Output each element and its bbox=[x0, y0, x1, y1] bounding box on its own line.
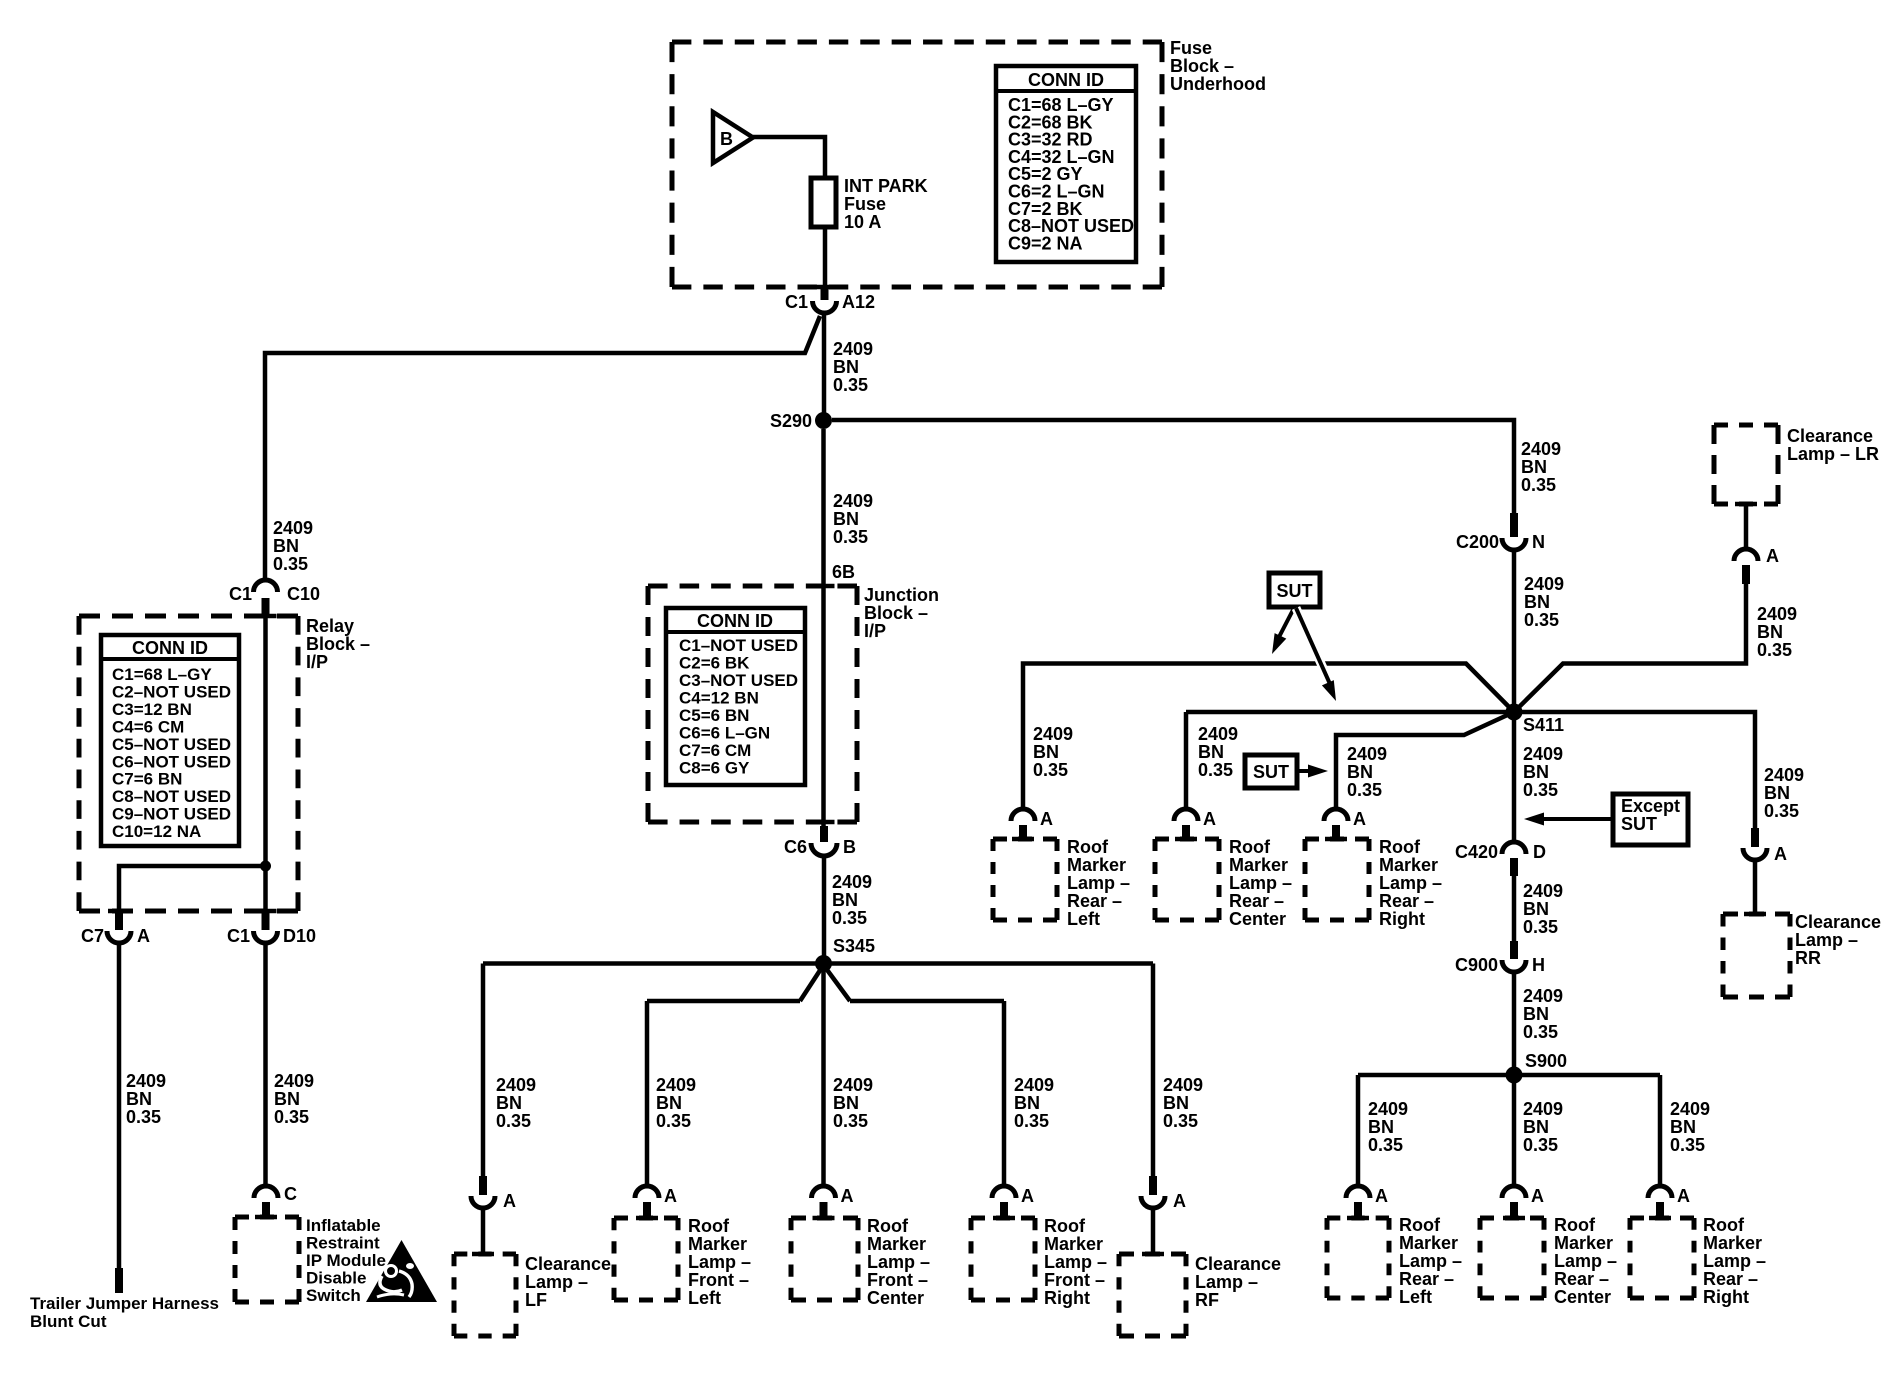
svg-text:C1=68 L–GY: C1=68 L–GY bbox=[112, 665, 212, 684]
svg-text:0.35: 0.35 bbox=[1757, 640, 1792, 660]
svg-text:BN: BN bbox=[1523, 899, 1549, 919]
svg-text:Left: Left bbox=[1067, 909, 1100, 929]
connector A roof marker lamp front left pin stub bbox=[643, 1202, 651, 1216]
blunt cut stub bbox=[115, 1268, 123, 1293]
svg-text:2409: 2409 bbox=[1757, 604, 1797, 624]
svg-text:BN: BN bbox=[274, 1089, 300, 1109]
rear feed right drop bbox=[1658, 1075, 1663, 1188]
svg-text:BN: BN bbox=[1368, 1117, 1394, 1137]
svg-text:2409: 2409 bbox=[126, 1071, 166, 1091]
svg-text:Clearance: Clearance bbox=[1795, 912, 1881, 932]
svg-text:S900: S900 bbox=[1525, 1051, 1567, 1071]
connector A clearance RF pin stub bbox=[1149, 1176, 1157, 1195]
svg-text:A12: A12 bbox=[842, 292, 875, 312]
clearance lamp RF box bbox=[1119, 1252, 1186, 1257]
svg-text:C1–NOT USED: C1–NOT USED bbox=[679, 636, 798, 655]
connector A roof marker lamp front left socket arc bbox=[635, 1186, 659, 1198]
svg-text:0.35: 0.35 bbox=[1521, 475, 1556, 495]
svg-text:C8–NOT USED: C8–NOT USED bbox=[112, 787, 231, 806]
svg-text:CONN ID: CONN ID bbox=[132, 638, 208, 658]
svg-text:Rear –: Rear – bbox=[1229, 891, 1284, 911]
svg-text:C8=6 GY: C8=6 GY bbox=[679, 759, 750, 778]
svg-text:2409: 2409 bbox=[1524, 574, 1564, 594]
svg-text:BN: BN bbox=[1757, 622, 1783, 642]
svg-text:C2–NOT USED: C2–NOT USED bbox=[112, 682, 231, 701]
svg-text:BN: BN bbox=[1523, 762, 1549, 782]
svg-text:BN: BN bbox=[1347, 762, 1373, 782]
svg-text:A: A bbox=[1173, 1191, 1186, 1211]
svg-text:Except: Except bbox=[1621, 796, 1680, 816]
front inner diagonals bbox=[800, 965, 824, 1001]
svg-text:Marker: Marker bbox=[1229, 855, 1288, 875]
wire clearance LR box to connector bbox=[1744, 504, 1749, 551]
svg-text:BN: BN bbox=[273, 536, 299, 556]
connector A clearance RR pin stub bbox=[1751, 828, 1759, 847]
junction block dashed enclosure bbox=[648, 584, 857, 589]
connector C7 A socket arc bbox=[107, 931, 131, 943]
roof marker lamp rear right lower box bbox=[1630, 1216, 1694, 1221]
svg-text:Clearance: Clearance bbox=[1195, 1254, 1281, 1274]
svg-text:C6=6 L–GN: C6=6 L–GN bbox=[679, 724, 770, 743]
splice S345 bbox=[815, 955, 832, 972]
svg-text:0.35: 0.35 bbox=[832, 908, 867, 928]
svg-text:2409: 2409 bbox=[1033, 724, 1073, 744]
svg-text:C9=2 NA: C9=2 NA bbox=[1008, 233, 1083, 253]
svg-text:D10: D10 bbox=[283, 926, 316, 946]
fuse block underhood dashed enclosure bbox=[672, 40, 1162, 45]
svg-text:Center: Center bbox=[1229, 909, 1286, 929]
svg-text:2409: 2409 bbox=[833, 1075, 873, 1095]
svg-text:2409: 2409 bbox=[1014, 1075, 1054, 1095]
connector A roof marker lamp front right pin stub bbox=[1000, 1202, 1008, 1216]
connector C6 B pin stub bbox=[820, 826, 828, 842]
svg-text:C4=6 CM: C4=6 CM bbox=[112, 717, 184, 736]
svg-text:SUT: SUT bbox=[1253, 762, 1289, 782]
svg-text:2409: 2409 bbox=[832, 872, 872, 892]
connector A roof marker rear right pin stub bbox=[1332, 825, 1340, 838]
SUT arrow left bbox=[1279, 608, 1294, 637]
svg-text:2409: 2409 bbox=[1368, 1099, 1408, 1119]
relay block internal branch wire bbox=[119, 866, 265, 912]
svg-text:0.35: 0.35 bbox=[833, 375, 868, 395]
power feed terminal B triangle bbox=[713, 112, 753, 163]
splice S411 bbox=[1506, 704, 1523, 721]
svg-text:Roof: Roof bbox=[1703, 1215, 1745, 1235]
connector C6 B socket arc bbox=[811, 843, 837, 856]
svg-text:C3=12 BN: C3=12 BN bbox=[112, 700, 192, 719]
svg-text:2409: 2409 bbox=[1521, 439, 1561, 459]
svg-text:SUT: SUT bbox=[1621, 814, 1657, 834]
connector C200 N pin stub bbox=[1510, 513, 1518, 537]
svg-text:D: D bbox=[1533, 842, 1546, 862]
SUT arrow 2 bbox=[1297, 769, 1316, 773]
svg-text:A: A bbox=[664, 1186, 677, 1206]
clearance lamp LF box bbox=[454, 1252, 516, 1257]
svg-text:0.35: 0.35 bbox=[1014, 1111, 1049, 1131]
rear feed left drop bbox=[1356, 1075, 1361, 1188]
svg-text:Right: Right bbox=[1703, 1287, 1749, 1307]
connector A clearance LR pin stub bbox=[1742, 565, 1750, 584]
svg-text:Roof: Roof bbox=[867, 1216, 909, 1236]
svg-text:BN: BN bbox=[833, 1093, 859, 1113]
svg-text:Lamp –: Lamp – bbox=[1195, 1272, 1258, 1292]
svg-text:C6: C6 bbox=[784, 837, 807, 857]
connector C1 A12 socket arc bbox=[813, 301, 837, 313]
svg-text:I/P: I/P bbox=[864, 621, 886, 641]
wire to clearance RF bbox=[1151, 1207, 1156, 1253]
svg-text:0.35: 0.35 bbox=[1523, 1022, 1558, 1042]
Except SUT callout box bbox=[1613, 794, 1688, 845]
svg-text:A: A bbox=[1375, 1186, 1388, 1206]
connector C900 H socket arc bbox=[1502, 960, 1526, 972]
svg-text:B: B bbox=[720, 129, 733, 149]
svg-text:Center: Center bbox=[1554, 1287, 1611, 1307]
svg-text:C7=6 BN: C7=6 BN bbox=[112, 770, 182, 789]
svg-text:A: A bbox=[1040, 809, 1053, 829]
relay block internal junction bbox=[260, 861, 271, 872]
svg-text:BN: BN bbox=[1033, 742, 1059, 762]
svg-text:C420: C420 bbox=[1455, 842, 1498, 862]
svg-text:Rear –: Rear – bbox=[1379, 891, 1434, 911]
wire fuse to connector C1 bbox=[823, 227, 828, 288]
connector A roof marker lamp front right socket arc bbox=[992, 1186, 1016, 1198]
connector A roof marker rear center lower socket arc bbox=[1502, 1186, 1526, 1198]
svg-text:Lamp –: Lamp – bbox=[1795, 930, 1858, 950]
roof marker lamp rear center lower box bbox=[1480, 1216, 1544, 1221]
splice S290 bbox=[815, 412, 832, 429]
svg-text:Lamp –: Lamp – bbox=[1044, 1252, 1107, 1272]
svg-text:Block –: Block – bbox=[864, 603, 928, 623]
svg-text:Roof: Roof bbox=[1379, 837, 1421, 857]
svg-text:BN: BN bbox=[1163, 1093, 1189, 1113]
svg-text:0.35: 0.35 bbox=[1670, 1135, 1705, 1155]
svg-text:0.35: 0.35 bbox=[656, 1111, 691, 1131]
roof marker lamp rear left lower box bbox=[1327, 1216, 1389, 1221]
rear feed center drop bbox=[1512, 1083, 1517, 1188]
svg-text:H: H bbox=[1532, 955, 1545, 975]
svg-text:Block –: Block – bbox=[1170, 56, 1234, 76]
inflatable restraint switch box bbox=[235, 1215, 299, 1220]
svg-text:Lamp –: Lamp – bbox=[1703, 1251, 1766, 1271]
svg-text:C9–NOT USED: C9–NOT USED bbox=[112, 805, 231, 824]
connector C900 H pin stub bbox=[1510, 941, 1518, 959]
svg-text:C1: C1 bbox=[229, 584, 252, 604]
svg-text:Fuse: Fuse bbox=[844, 194, 886, 214]
svg-text:0.35: 0.35 bbox=[1524, 610, 1559, 630]
svg-text:N: N bbox=[1532, 532, 1545, 552]
svg-text:2409: 2409 bbox=[833, 339, 873, 359]
fuse block edge tick at wire bbox=[814, 285, 836, 290]
svg-text:0.35: 0.35 bbox=[1368, 1135, 1403, 1155]
svg-text:0.35: 0.35 bbox=[1033, 760, 1068, 780]
connector A roof marker lamp front center pin stub bbox=[820, 1202, 828, 1216]
svg-text:C1: C1 bbox=[227, 926, 250, 946]
svg-text:C200: C200 bbox=[1456, 532, 1499, 552]
clearance lamp LR box bbox=[1714, 423, 1778, 428]
roof marker lamp front center box bbox=[791, 1216, 858, 1221]
wire S290 down to junction block bbox=[821, 429, 826, 588]
svg-text:A: A bbox=[841, 1186, 854, 1206]
svg-text:2409: 2409 bbox=[273, 518, 313, 538]
connector C420 D socket arc bbox=[1502, 842, 1526, 854]
svg-text:2409: 2409 bbox=[274, 1071, 314, 1091]
svg-text:2409: 2409 bbox=[1670, 1099, 1710, 1119]
roof marker lamp rear center box bbox=[1155, 837, 1219, 842]
svg-text:Right: Right bbox=[1044, 1288, 1090, 1308]
svg-text:Lamp – LR: Lamp – LR bbox=[1787, 444, 1879, 464]
connector C1 D10 pin stub bbox=[262, 910, 270, 930]
svg-text:Front –: Front – bbox=[688, 1270, 749, 1290]
front feed bus wire bbox=[483, 961, 1153, 966]
front feed center drop bbox=[821, 964, 826, 1189]
front feed right drop bbox=[1151, 964, 1156, 1179]
svg-text:BN: BN bbox=[832, 890, 858, 910]
svg-text:C10=12 NA: C10=12 NA bbox=[112, 822, 201, 841]
svg-text:Block –: Block – bbox=[306, 634, 370, 654]
svg-text:2409: 2409 bbox=[1523, 881, 1563, 901]
svg-text:Restraint: Restraint bbox=[306, 1234, 380, 1253]
svg-text:10 A: 10 A bbox=[844, 212, 881, 232]
svg-text:0.35: 0.35 bbox=[496, 1111, 531, 1131]
svg-text:0.35: 0.35 bbox=[1198, 760, 1233, 780]
svg-text:0.35: 0.35 bbox=[1764, 801, 1799, 821]
svg-text:2409: 2409 bbox=[833, 491, 873, 511]
wire C900 to S900 bbox=[1512, 972, 1517, 1067]
svg-text:Left: Left bbox=[688, 1288, 721, 1308]
svg-text:Switch: Switch bbox=[306, 1286, 361, 1305]
svg-text:BN: BN bbox=[1523, 1117, 1549, 1137]
connector A roof marker rear right socket arc bbox=[1324, 809, 1348, 821]
svg-text:Roof: Roof bbox=[688, 1216, 730, 1236]
connector A roof marker rear left socket arc bbox=[1011, 809, 1035, 821]
wire C7 to blunt cut bbox=[117, 942, 122, 1270]
conn id table junction block bbox=[666, 608, 805, 785]
svg-text:BN: BN bbox=[1524, 592, 1550, 612]
clearance RR branch wire bbox=[1514, 712, 1755, 830]
relay block edge ticks at wires bbox=[255, 614, 277, 619]
front inner right bus bbox=[850, 999, 1004, 1004]
conn id table fuse block bbox=[996, 66, 1136, 262]
connector C1 C10 pin stub bbox=[262, 598, 270, 617]
svg-text:2409: 2409 bbox=[1347, 744, 1387, 764]
svg-text:Rear –: Rear – bbox=[1399, 1269, 1454, 1289]
svg-text:Right: Right bbox=[1379, 909, 1425, 929]
svg-text:Clearance: Clearance bbox=[1787, 426, 1873, 446]
svg-text:Rear –: Rear – bbox=[1067, 891, 1122, 911]
relay block dashed enclosure bbox=[79, 614, 298, 619]
svg-text:Marker: Marker bbox=[1067, 855, 1126, 875]
svg-text:C5–NOT USED: C5–NOT USED bbox=[112, 735, 231, 754]
connector A clearance RR socket arc bbox=[1743, 848, 1767, 860]
svg-text:BN: BN bbox=[1014, 1093, 1040, 1113]
wire D10 to switch bbox=[263, 942, 268, 1188]
svg-text:0.35: 0.35 bbox=[1163, 1111, 1198, 1131]
clearance LR branch wire bbox=[1514, 584, 1746, 712]
svg-text:Clearance: Clearance bbox=[525, 1254, 611, 1274]
svg-text:A: A bbox=[137, 926, 150, 946]
svg-text:C7: C7 bbox=[81, 926, 104, 946]
wire C200 to S411 bbox=[1512, 550, 1517, 704]
roof marker lamp rear right box bbox=[1305, 837, 1369, 842]
connector C420 D pin stub bbox=[1510, 858, 1518, 876]
svg-text:Center: Center bbox=[867, 1288, 924, 1308]
SUT arrow right casing bbox=[1296, 608, 1332, 688]
connector A roof marker rear left lower socket arc bbox=[1346, 1186, 1370, 1198]
svg-text:0.35: 0.35 bbox=[1347, 780, 1382, 800]
rear-left branch wire bbox=[1023, 664, 1514, 811]
svg-text:Roof: Roof bbox=[1554, 1215, 1596, 1235]
svg-text:Trailer Jumper Harness: Trailer Jumper Harness bbox=[30, 1294, 219, 1313]
connector A roof marker rear right lower socket arc bbox=[1648, 1186, 1672, 1198]
svg-text:Marker: Marker bbox=[1703, 1233, 1762, 1253]
svg-text:Lamp –: Lamp – bbox=[1399, 1251, 1462, 1271]
svg-text:Junction: Junction bbox=[864, 585, 939, 605]
svg-text:C: C bbox=[284, 1184, 297, 1204]
svg-text:Lamp –: Lamp – bbox=[1067, 873, 1130, 893]
rear-center drop bbox=[1184, 712, 1189, 810]
svg-text:Marker: Marker bbox=[867, 1234, 926, 1254]
svg-text:Blunt Cut: Blunt Cut bbox=[30, 1312, 107, 1331]
SUT callout box 2 bbox=[1245, 755, 1297, 788]
svg-text:0.35: 0.35 bbox=[833, 1111, 868, 1131]
svg-text:Rear –: Rear – bbox=[1554, 1269, 1609, 1289]
svg-text:A: A bbox=[1774, 844, 1787, 864]
connector A roof marker rear center lower pin stub bbox=[1510, 1202, 1518, 1216]
wire A12 to S290 bbox=[822, 312, 827, 420]
svg-text:Roof: Roof bbox=[1067, 837, 1109, 857]
svg-text:RF: RF bbox=[1195, 1290, 1219, 1310]
svg-text:2409: 2409 bbox=[1523, 744, 1563, 764]
svg-text:Relay: Relay bbox=[306, 616, 354, 636]
svg-text:2409: 2409 bbox=[496, 1075, 536, 1095]
svg-text:2409: 2409 bbox=[1764, 765, 1804, 785]
svg-text:A: A bbox=[1353, 809, 1366, 829]
svg-text:2409: 2409 bbox=[1523, 1099, 1563, 1119]
splice S900 bbox=[1506, 1067, 1523, 1084]
svg-text:C1: C1 bbox=[785, 292, 808, 312]
srs warning triangle bbox=[366, 1240, 437, 1302]
connector C socket arc bbox=[254, 1186, 278, 1198]
svg-text:A: A bbox=[1531, 1186, 1544, 1206]
front inner left bus bbox=[647, 999, 800, 1004]
svg-text:S411: S411 bbox=[1523, 715, 1564, 735]
svg-text:Roof: Roof bbox=[1399, 1215, 1441, 1235]
svg-text:Lamp –: Lamp – bbox=[867, 1252, 930, 1272]
connector C1 A12 pin stub bbox=[821, 286, 829, 300]
svg-text:0.35: 0.35 bbox=[1523, 780, 1558, 800]
connector C1 D10 socket arc bbox=[254, 931, 278, 943]
connector A clearance LF pin stub bbox=[479, 1176, 487, 1195]
svg-text:Front –: Front – bbox=[867, 1270, 928, 1290]
svg-text:Lamp –: Lamp – bbox=[688, 1252, 751, 1272]
wire to clearance LF bbox=[481, 1207, 486, 1253]
svg-text:BN: BN bbox=[1764, 783, 1790, 803]
Except SUT arrow bbox=[1538, 817, 1613, 821]
svg-text:Roof: Roof bbox=[1044, 1216, 1086, 1236]
svg-text:BN: BN bbox=[833, 509, 859, 529]
svg-text:Lamp –: Lamp – bbox=[1554, 1251, 1617, 1271]
svg-text:C2=6 BK: C2=6 BK bbox=[679, 654, 750, 673]
svg-text:Fuse: Fuse bbox=[1170, 38, 1212, 58]
wire inside relay block bbox=[263, 617, 268, 912]
svg-text:Marker: Marker bbox=[688, 1234, 747, 1254]
svg-text:2409: 2409 bbox=[1163, 1075, 1203, 1095]
wire S411 down bbox=[1512, 720, 1517, 843]
svg-text:0.35: 0.35 bbox=[126, 1107, 161, 1127]
rear-center branch wire bbox=[1186, 710, 1514, 715]
svg-text:Marker: Marker bbox=[1399, 1233, 1458, 1253]
svg-text:Inflatable: Inflatable bbox=[306, 1216, 381, 1235]
svg-text:SUT: SUT bbox=[1277, 581, 1313, 601]
svg-text:BN: BN bbox=[496, 1093, 522, 1113]
svg-text:C6–NOT USED: C6–NOT USED bbox=[112, 752, 231, 771]
svg-text:C3–NOT USED: C3–NOT USED bbox=[679, 671, 798, 690]
svg-text:C5=6 BN: C5=6 BN bbox=[679, 706, 749, 725]
svg-text:IP Module: IP Module bbox=[306, 1251, 386, 1270]
connector A roof marker rear right lower pin stub bbox=[1656, 1202, 1664, 1216]
svg-text:C4=12 BN: C4=12 BN bbox=[679, 689, 759, 708]
svg-text:0.35: 0.35 bbox=[833, 527, 868, 547]
clearance lamp RR box bbox=[1723, 912, 1790, 917]
connector C1 C10 socket arc bbox=[254, 580, 278, 592]
svg-text:BN: BN bbox=[1670, 1117, 1696, 1137]
svg-text:A: A bbox=[1203, 809, 1216, 829]
connector A roof marker rear center socket arc bbox=[1174, 809, 1198, 821]
svg-text:C7=6 CM: C7=6 CM bbox=[679, 741, 751, 760]
svg-text:A: A bbox=[1021, 1186, 1034, 1206]
svg-text:RR: RR bbox=[1795, 948, 1821, 968]
wire C6 to S345 bbox=[822, 855, 827, 956]
svg-text:C900: C900 bbox=[1455, 955, 1498, 975]
rear-right branch wire bbox=[1336, 712, 1514, 810]
svg-text:Marker: Marker bbox=[1379, 855, 1438, 875]
svg-text:S290: S290 bbox=[770, 411, 812, 431]
svg-text:0.35: 0.35 bbox=[1523, 917, 1558, 937]
connector A roof marker rear left pin stub bbox=[1019, 825, 1027, 838]
svg-text:B: B bbox=[843, 837, 856, 857]
svg-text:2409: 2409 bbox=[1523, 986, 1563, 1006]
svg-text:C10: C10 bbox=[287, 584, 320, 604]
svg-text:2409: 2409 bbox=[1198, 724, 1238, 744]
svg-text:BN: BN bbox=[656, 1093, 682, 1113]
svg-text:I/P: I/P bbox=[306, 652, 328, 672]
svg-text:Lamp –: Lamp – bbox=[1229, 873, 1292, 893]
svg-text:Roof: Roof bbox=[1229, 837, 1271, 857]
wire S290 to C200 bbox=[832, 420, 1514, 515]
svg-text:A: A bbox=[1677, 1186, 1690, 1206]
svg-text:Left: Left bbox=[1399, 1287, 1432, 1307]
conn id table relay block bbox=[101, 635, 239, 846]
svg-text:BN: BN bbox=[126, 1089, 152, 1109]
junction block edge ticks at wires bbox=[813, 584, 835, 589]
wire from terminal B to fuse bbox=[753, 137, 825, 178]
connector A roof marker rear left lower pin stub bbox=[1354, 1202, 1362, 1216]
svg-text:Marker: Marker bbox=[1044, 1234, 1103, 1254]
svg-text:2409: 2409 bbox=[656, 1075, 696, 1095]
svg-text:BN: BN bbox=[1198, 742, 1224, 762]
rear feed bus wire bbox=[1358, 1073, 1660, 1078]
roof marker lamp front right box bbox=[971, 1216, 1035, 1221]
svg-text:S345: S345 bbox=[833, 936, 875, 956]
svg-text:CONN ID: CONN ID bbox=[697, 611, 773, 631]
branch wire to relay block bbox=[265, 316, 820, 581]
connector C200 N socket arc bbox=[1502, 538, 1526, 550]
svg-text:0.35: 0.35 bbox=[274, 1107, 309, 1127]
connector A clearance LR socket arc bbox=[1734, 549, 1758, 561]
svg-text:LF: LF bbox=[525, 1290, 547, 1310]
SUT arrow right bbox=[1296, 608, 1330, 684]
fuse INT PARK symbol bbox=[811, 178, 836, 227]
